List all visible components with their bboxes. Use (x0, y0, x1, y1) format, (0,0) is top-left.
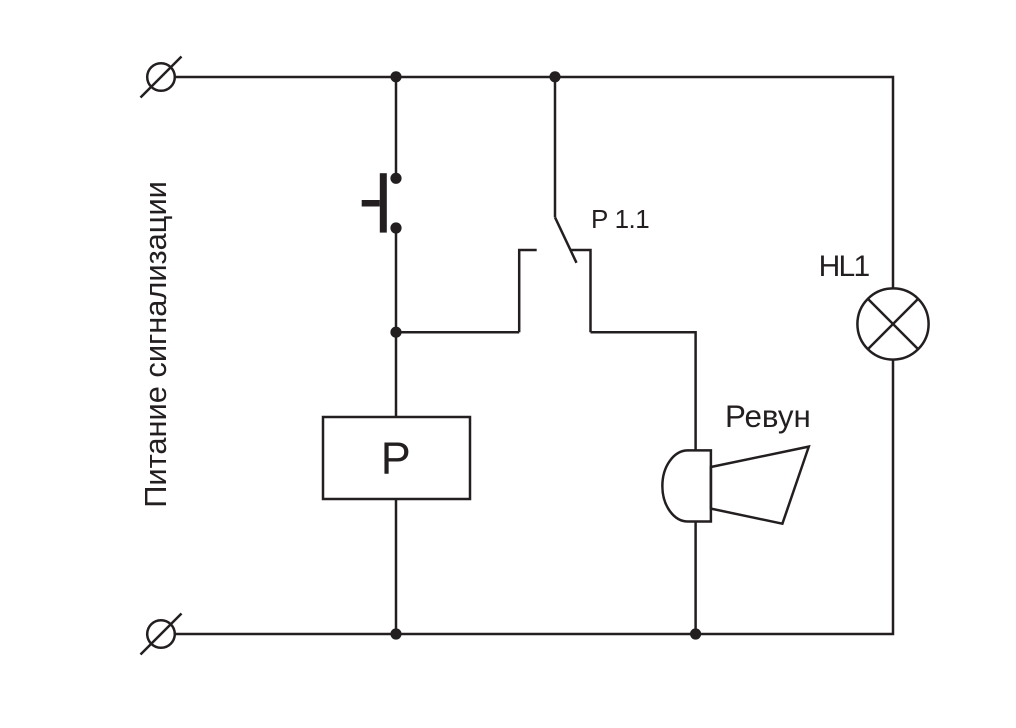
terminal X1 (top input) (141, 57, 182, 98)
node junction bottom rail / coil branch (390, 628, 401, 639)
node junction top rail / contact branch (549, 71, 560, 82)
node junction top rail / button branch (390, 71, 401, 82)
wire button branch lower (button to coil) (395, 228, 398, 417)
svg-text:Р: Р (381, 433, 411, 484)
horn (sounder) Ревун (662, 447, 808, 524)
lamp HL1 (857, 288, 928, 359)
svg-text:HL1: HL1 (819, 250, 870, 283)
svg-text:Р 1.1: Р 1.1 (591, 204, 649, 234)
relay contact P 1.1 (normally open) (519, 217, 590, 332)
terminal X2 (bottom input) (141, 614, 182, 655)
node junction bottom rail / horn branch (690, 628, 701, 639)
node junction button branch / contact return (390, 327, 401, 338)
wire coil to bottom rail (395, 499, 398, 634)
svg-text:Ревун: Ревун (725, 399, 811, 434)
relay coil P (box) (323, 417, 470, 499)
wire contact left lead to junction (396, 331, 519, 334)
wire bottom rail (lamp down to right corner, left to terminal X2) (175, 360, 893, 634)
wire top rail (terminal X1 to right corner, down to lamp) (175, 77, 893, 288)
svg-text:Питание сигнализации: Питание сигнализации (138, 181, 173, 508)
wire contact branch upper (554, 77, 557, 217)
wire horn to bottom rail (694, 522, 697, 635)
wire button branch upper (395, 77, 398, 178)
pushbutton SB (momentary, normally open) (362, 173, 402, 234)
wire contact right lead to horn (591, 332, 696, 450)
